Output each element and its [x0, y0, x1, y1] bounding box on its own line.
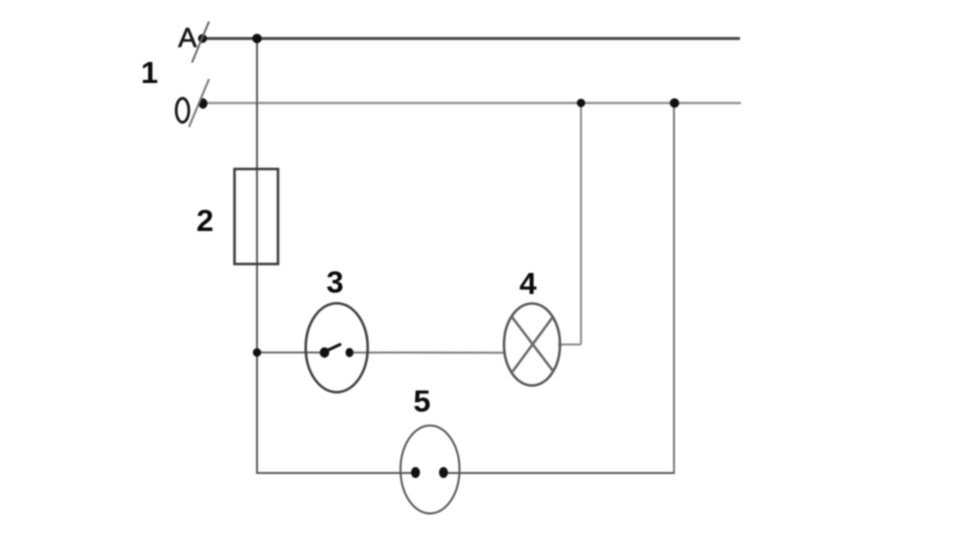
svg-text:3: 3 — [326, 265, 343, 300]
svg-text:A: A — [178, 22, 197, 53]
svg-text:4: 4 — [519, 266, 537, 301]
svg-text:2: 2 — [196, 203, 213, 238]
svg-text:5: 5 — [413, 384, 430, 419]
svg-text:1: 1 — [141, 55, 158, 90]
